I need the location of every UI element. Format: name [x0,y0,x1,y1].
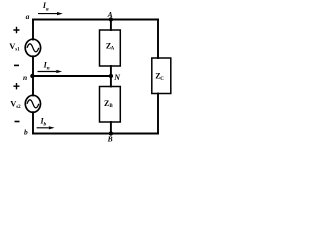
svg-text:C: C [160,77,164,82]
svg-text:n: n [23,73,27,82]
svg-text:B: B [107,135,113,144]
svg-text:n: n [47,65,50,71]
svg-text:A: A [107,10,113,19]
svg-text:b: b [24,127,28,136]
svg-text:b: b [44,122,47,128]
svg-text:a: a [26,12,30,21]
svg-text:s2: s2 [16,105,21,110]
svg-text:s1: s1 [15,48,20,53]
svg-text:A: A [111,47,115,52]
svg-text:a: a [46,6,49,12]
